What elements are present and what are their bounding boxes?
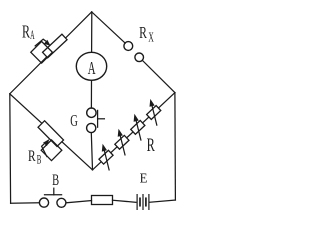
wire arm top-right upper segment (T toward RX) (92, 12, 126, 43)
svg-text:R: R (147, 136, 156, 156)
wire bottom rail right segment (150, 200, 175, 202)
svg-text:X: X (148, 30, 154, 45)
RX terminal circle upper (124, 42, 133, 51)
RX terminal circle lower (135, 53, 144, 62)
battery E plate long 3 (148, 195, 150, 210)
wire middle bottom (switch G to bottom node) (91, 133, 92, 170)
rheostat RA small square box (31, 41, 53, 63)
variable resistor chain box 3 (131, 120, 145, 134)
switch B terminal circle right (57, 198, 66, 207)
wire arm top-right lower segment (RX toward R corner) (142, 60, 175, 92)
rheostat RA wiper arrow (35, 39, 45, 46)
svg-text:R: R (22, 21, 30, 41)
rheostat RB small square box (41, 140, 62, 161)
wire bottom rail left segment (11, 202, 40, 204)
battery E plate long 2 (142, 195, 144, 210)
wire bottom rail between switch and box (66, 201, 91, 203)
rheostat RB long box (38, 121, 64, 147)
variable resistor chain arrow 2 (120, 135, 125, 155)
switch B key bar (45, 194, 62, 196)
rheostat RB wiper arrow (42, 144, 47, 156)
battery E plate long 1 (136, 195, 138, 210)
variable resistor chain box 4 (147, 106, 161, 120)
switch G terminal circle lower (87, 123, 96, 132)
switch G key bar (97, 110, 99, 127)
variable resistor chain arrow 4 (152, 105, 157, 125)
switch G terminal circle upper (87, 108, 96, 117)
svg-text:B: B (37, 151, 42, 166)
svg-text:R: R (28, 148, 36, 165)
wire arm bottom-right (bottom node to R corner) (93, 93, 175, 170)
battery E plate short 2 (145, 198, 147, 205)
variable resistor chain box 1 (99, 150, 113, 164)
ammeter A circle (76, 52, 106, 80)
wire arm bottom-left (L to bottom node) (10, 94, 93, 170)
wire left side vertical (9, 94, 12, 203)
variable resistor chain box 2 (115, 135, 129, 149)
battery E plate short 1 (139, 198, 141, 205)
switch G key tick (98, 118, 105, 120)
switch B terminal circle left (39, 198, 48, 207)
svg-text:E: E (140, 170, 148, 185)
svg-text:B: B (52, 172, 59, 189)
wire right side vertical (174, 93, 177, 200)
rheostat RA long box (43, 34, 67, 58)
variable resistor chain arrow 3 (136, 120, 141, 140)
switch B key stem (53, 188, 55, 195)
wire middle top (T to ammeter) (91, 12, 93, 52)
svg-text:R: R (139, 23, 147, 42)
svg-text:G: G (70, 111, 78, 130)
wire arm top-left (node L to node T) (10, 12, 92, 94)
wire bottom rail between box and battery (113, 200, 136, 202)
resistor box on bottom rail (92, 196, 113, 205)
wire middle between ammeter and switch G (90, 80, 92, 108)
svg-text:A: A (88, 58, 96, 78)
svg-text:A: A (30, 28, 35, 42)
variable resistor chain arrow 1 (104, 150, 109, 170)
